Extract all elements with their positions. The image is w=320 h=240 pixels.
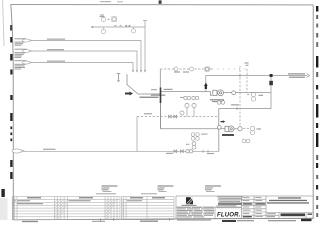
svg-text:FLUOR.: FLUOR. <box>217 213 241 219</box>
